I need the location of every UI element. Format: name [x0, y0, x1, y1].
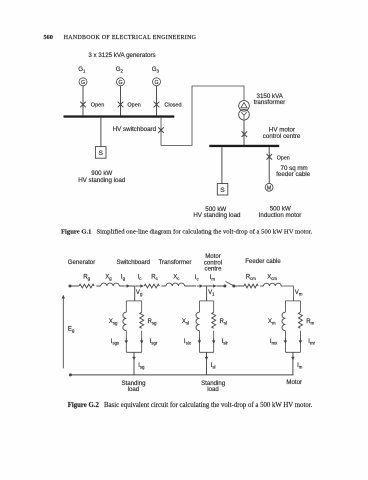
svg-text:Isgr: Isgr [150, 338, 158, 345]
svg-text:M: M [267, 185, 271, 191]
busbar: HV motor control centre [209, 145, 279, 147]
svg-text:Isgx: Isgx [111, 338, 120, 346]
resistor Rsl [212, 312, 216, 328]
svg-text:560: 560 [44, 34, 53, 41]
svg-text:Open: Open [127, 102, 140, 108]
shunt branch box frame (Xsg/Rsg) [126, 301, 141, 352]
wire G3 to busbar [156, 86, 158, 116]
inductor Xg [101, 283, 120, 286]
svg-text:Feeder cable: Feeder cable [245, 258, 281, 265]
load box S (500 kW standing load) [217, 184, 228, 196]
wire: MCC to 500 kW standing load [221, 147, 223, 183]
svg-text:HANDBOOK OF ELECTRICAL ENGINEE: HANDBOOK OF ELECTRICAL ENGINEERING [64, 35, 197, 41]
svg-text:Xcm: Xcm [267, 273, 277, 280]
circuit breaker: MCC incomer (X) [242, 131, 248, 137]
svg-text:Induction motor: Induction motor [259, 212, 302, 219]
svg-text:Xm: Xm [268, 318, 276, 326]
svg-text:Figure G.2 Basic equivalent: Figure G.2 Basic equivalent circuit for … [68, 402, 313, 409]
svg-text:G: G [118, 80, 122, 86]
resistor Rg [79, 284, 94, 288]
svg-text:Isl: Isl [211, 362, 216, 369]
svg-text:Im: Im [210, 274, 216, 281]
generator G1 circle [79, 78, 87, 86]
svg-text:Rcm: Rcm [246, 273, 257, 280]
wire [234, 285, 244, 287]
svg-text:Rsl: Rsl [220, 318, 228, 325]
svg-text:load: load [207, 386, 219, 393]
svg-text:Imr: Imr [308, 338, 315, 345]
svg-text:G1: G1 [78, 66, 86, 73]
node Vg drop to standing-load branch [134, 290, 136, 301]
transformer T1 star winding circle [239, 109, 250, 120]
svg-text:Ic: Ic [138, 274, 143, 281]
wire: top rail segment 1 [70, 285, 79, 287]
svg-text:HV standing load: HV standing load [78, 177, 126, 184]
node V1 drop to standing-load branch [206, 290, 208, 301]
svg-text:Transformer: Transformer [159, 259, 192, 266]
svg-text:Vg: Vg [136, 289, 143, 296]
svg-text:Eg: Eg [68, 326, 75, 333]
node: generator terminal (bottom left) [69, 373, 72, 376]
svg-text:Ig: Ig [121, 274, 126, 281]
wire to switch [217, 285, 225, 287]
svg-text:Xsg: Xsg [109, 318, 118, 326]
svg-text:Rc: Rc [151, 274, 158, 281]
svg-text:Xsl: Xsl [182, 318, 189, 326]
current arrow Ic (into MCC node) [200, 284, 203, 288]
load box S (900 kW standing load) [95, 147, 106, 159]
wire: MCC to induction motor [268, 147, 270, 183]
wire [260, 285, 263, 287]
svg-text:centre: centre [205, 265, 223, 272]
current arrow Im [291, 357, 295, 360]
svg-text:Imx: Imx [270, 338, 278, 346]
svg-text:Islx: Islx [184, 338, 192, 346]
svg-text:V1: V1 [208, 289, 215, 296]
wire: busbar to 900 kW standing load [100, 118, 102, 147]
svg-text:Ic: Ic [195, 274, 200, 281]
wire [162, 285, 167, 287]
resistor Rcm (feeder cable resistance) [244, 284, 258, 288]
svg-text:Rsg: Rsg [148, 318, 158, 325]
inductor Xcm (feeder cable reactance) [264, 283, 282, 286]
bottom rail [70, 374, 293, 376]
node V1 junction [206, 286, 208, 290]
svg-text:Closed: Closed [164, 102, 181, 108]
svg-text:Rm: Rm [306, 318, 314, 325]
inductor Xm [282, 312, 285, 330]
wire G2 to busbar [120, 86, 122, 116]
wire Isg to bottom rail [133, 352, 135, 375]
resistor Rsg [140, 312, 144, 328]
resistor Rm [298, 312, 302, 328]
inductor Xsg [123, 312, 126, 330]
svg-text:HV standing load: HV standing load [193, 212, 241, 219]
resistor Rc [144, 284, 159, 288]
svg-text:G3: G3 [152, 66, 160, 73]
EMF source Eg arrow [62, 295, 65, 299]
circuit breaker: motor feeder (X) [267, 154, 273, 160]
current arrow Islx [198, 340, 202, 343]
svg-text:G: G [81, 80, 85, 86]
current arrow Isgx [125, 340, 129, 343]
svg-text:control centre: control centre [263, 133, 301, 140]
svg-text:transformer: transformer [254, 99, 286, 106]
svg-text:Open: Open [91, 102, 104, 108]
shunt branch box frame (Xm/Rm) [285, 301, 300, 352]
current arrow Isgr [140, 340, 144, 343]
svg-text:S: S [98, 150, 103, 157]
svg-text:feeder cable: feeder cable [276, 171, 311, 178]
wire [96, 285, 100, 287]
current arrow Im (into feeder) [213, 284, 216, 288]
svg-text:Im: Im [297, 362, 303, 369]
node: generator terminal (top left) [69, 285, 72, 288]
svg-text:HV switchboard: HV switchboard [113, 126, 157, 133]
svg-text:Figure G.1 Simplified one-li: Figure G.1 Simplified one-line diagram f… [61, 229, 313, 236]
wire G1 to busbar [82, 86, 84, 116]
svg-text:S: S [220, 187, 225, 194]
current arrow Imx [284, 340, 288, 343]
svg-text:Open: Open [277, 156, 290, 162]
circuit breaker: HV switchboard outgoing feeder (X) [158, 127, 164, 133]
svg-text:G2: G2 [116, 66, 124, 73]
wire into node Vg [130, 285, 135, 287]
current arrow Isl [205, 357, 209, 360]
current arrow Ic (into transformer branch) [140, 284, 143, 288]
svg-text:Generator: Generator [68, 259, 95, 266]
shunt branch box frame (Xsl/Rsl) [199, 301, 213, 352]
current arrow Islr [212, 340, 216, 343]
generator G3 circle [153, 78, 161, 86]
current arrow Imr [299, 340, 303, 343]
svg-text:Switchboard: Switchboard [117, 259, 151, 266]
switch contact (open) for motor feeder [223, 285, 226, 288]
circuit breaker G1 (X) [80, 102, 86, 108]
wire [185, 285, 196, 287]
generator G2 circle [117, 78, 125, 86]
svg-text:Xg: Xg [105, 274, 112, 281]
svg-text:Motor: Motor [286, 379, 302, 386]
wire into node V1 [203, 285, 207, 287]
svg-text:load: load [128, 386, 140, 393]
wire Im to bottom rail [292, 352, 294, 375]
current arrow Ig [127, 284, 130, 288]
svg-text:Islr: Islr [222, 338, 229, 345]
inductor Xsl [196, 312, 199, 330]
node Vg junction [134, 286, 136, 290]
wire: transformer to MCC busbar [243, 120, 245, 145]
svg-text:Xc: Xc [173, 274, 180, 281]
inductor Xc [166, 283, 185, 286]
transformer T1 (3150 kVA) delta winding circle [239, 101, 250, 112]
current arrow Isg [132, 357, 136, 360]
motor M circle (500 kW induction motor) [265, 183, 273, 191]
busbar: HV switchboard [64, 115, 175, 117]
svg-text:G: G [154, 80, 158, 86]
circuit breaker G2 (X) [118, 102, 124, 108]
svg-text:3 x 3125 kVA generators: 3 x 3125 kVA generators [88, 52, 155, 59]
wire: jog from switchboard breaker to transformer [161, 86, 244, 145]
svg-text:Isg: Isg [138, 362, 145, 369]
wire to motor corner node Vm [281, 286, 293, 301]
svg-text:Vm: Vm [295, 289, 303, 296]
circuit breaker G3 (X) [154, 102, 160, 108]
wire Isl to bottom rail [206, 352, 208, 375]
svg-text:Rg: Rg [83, 274, 90, 281]
